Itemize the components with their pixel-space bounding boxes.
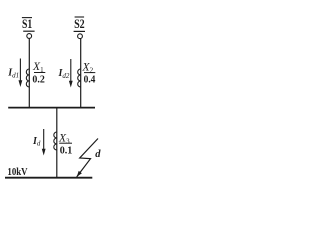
wire S2 to busbar <box>80 39 82 108</box>
node S1 label <box>22 16 32 31</box>
svg-text:S2: S2 <box>74 16 85 31</box>
current arrow Id1 <box>19 59 23 88</box>
source S1 circle <box>27 34 32 39</box>
svg-text:10kV: 10kV <box>7 167 28 178</box>
svg-text:S1: S1 <box>22 16 32 31</box>
value label X3/0.1 <box>58 133 72 157</box>
current arrow Id2 <box>69 59 73 88</box>
svg-text:d: d <box>95 149 101 160</box>
fault lightning symbol <box>77 139 98 177</box>
wire S1 to busbar <box>28 38 30 108</box>
svg-text:Id1: Id1 <box>7 68 19 80</box>
svg-text:Id: Id <box>32 136 41 148</box>
busbar 10kV <box>5 177 92 179</box>
value label X1/0.2 <box>32 61 45 85</box>
value label X2/0.4 <box>82 62 96 86</box>
current arrow Id <box>42 129 46 156</box>
svg-text:0.1: 0.1 <box>60 144 73 156</box>
svg-text:0.4: 0.4 <box>84 74 96 86</box>
source S2 terminal bar <box>74 30 85 32</box>
source S1 terminal bar <box>23 30 34 32</box>
source S2 circle <box>78 34 83 39</box>
node S2 label <box>74 16 85 31</box>
reactor X3 coil <box>54 132 57 150</box>
reactor X2 coil <box>78 69 81 87</box>
svg-text:0.2: 0.2 <box>32 74 45 86</box>
busbar upper <box>8 107 95 109</box>
svg-text:Id2: Id2 <box>58 68 70 80</box>
reactor X1 coil <box>26 69 29 87</box>
wire busbar to 10kV busbar <box>56 107 58 178</box>
